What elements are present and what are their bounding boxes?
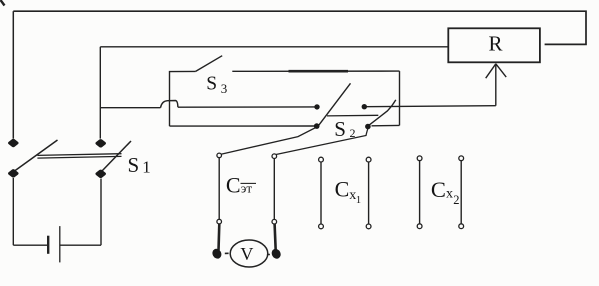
svg-text:S: S [128, 153, 140, 177]
svg-text:V: V [240, 244, 253, 264]
svg-text:2: 2 [350, 126, 356, 140]
svg-text:S: S [334, 117, 346, 141]
svg-text:C: C [335, 176, 350, 201]
svg-text:S: S [206, 74, 217, 95]
svg-text:1: 1 [142, 158, 151, 177]
svg-text:R: R [489, 31, 503, 55]
svg-text:1: 1 [356, 195, 361, 206]
svg-text:2: 2 [453, 193, 459, 207]
svg-text:C: C [226, 172, 241, 197]
svg-text:C: C [431, 177, 446, 202]
svg-text:3: 3 [221, 81, 228, 96]
svg-text:x: x [446, 187, 453, 202]
